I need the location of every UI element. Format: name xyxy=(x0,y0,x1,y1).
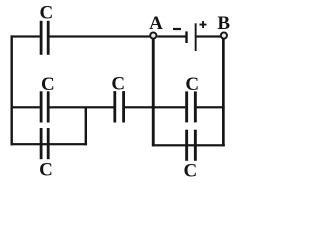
node B terminal xyxy=(221,32,227,38)
capacitor C4 center xyxy=(113,91,125,122)
wire battery to node B xyxy=(196,35,220,37)
capacitor C2 middle-left upper xyxy=(40,91,50,122)
capacitor C3 middle-left lower xyxy=(40,128,50,159)
wire vertical under A xyxy=(152,39,155,146)
capacitor C5 middle-right upper xyxy=(185,91,197,122)
capacitor C1 top xyxy=(40,21,50,55)
svg-text:B: B xyxy=(217,13,230,34)
wire middle segment 1 xyxy=(11,106,40,108)
wire top-left segment xyxy=(11,35,40,37)
wire lower-right xyxy=(152,144,225,146)
wire vertical under B xyxy=(222,39,225,147)
node A terminal xyxy=(150,32,156,38)
svg-text:C: C xyxy=(41,74,55,95)
wire middle segment 3 xyxy=(125,106,185,108)
battery positive plate xyxy=(195,23,197,51)
capacitor C6 middle-right lower xyxy=(185,130,197,161)
wire node A to battery xyxy=(157,35,185,37)
wire lower-left xyxy=(11,143,88,145)
battery plus sign xyxy=(200,21,207,28)
battery minus sign xyxy=(173,28,181,30)
svg-text:C: C xyxy=(184,160,198,181)
svg-text:C: C xyxy=(39,160,53,181)
wire top-right segment to node A xyxy=(49,35,149,37)
svg-text:A: A xyxy=(149,13,163,34)
svg-text:C: C xyxy=(40,2,54,23)
battery negative plate xyxy=(185,31,187,43)
wire junction stub xyxy=(85,107,87,145)
svg-text:C: C xyxy=(111,73,125,94)
wire left rail xyxy=(11,35,13,145)
svg-text:C: C xyxy=(185,74,199,95)
wire middle segment 2 xyxy=(49,106,113,108)
wire middle segment 4 xyxy=(197,106,225,108)
